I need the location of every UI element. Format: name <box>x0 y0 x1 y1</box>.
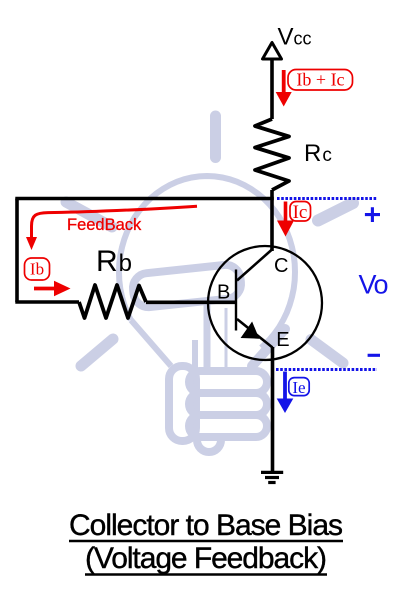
background logo watermark (light bulb with fist) <box>66 116 353 452</box>
resistor Rc <box>255 119 289 190</box>
current label Ib box <box>25 258 50 280</box>
feedback wire left vertical <box>15 199 19 303</box>
current arrow Ie (blue) <box>283 372 287 400</box>
svg-text:Ie: Ie <box>292 378 305 397</box>
current label Ib+Ic box <box>288 70 353 91</box>
svg-text:FeedBack: FeedBack <box>67 216 142 234</box>
resistor Rb <box>79 285 146 318</box>
feedback annotation arrow (red) <box>32 206 198 238</box>
svg-text:C: C <box>274 255 288 277</box>
rays <box>66 116 353 366</box>
feedback wire bottom to Rb <box>15 300 79 304</box>
current arrow Ic (red) <box>284 202 288 222</box>
svg-text:Vcc: Vcc <box>278 24 312 51</box>
svg-text:Vo: Vo <box>359 269 389 299</box>
svg-text:Ib: Ib <box>30 260 44 279</box>
transistor Q1 body circle <box>208 246 322 360</box>
current label Ic box <box>290 202 311 222</box>
svg-text:(Voltage Feedback): (Voltage Feedback) <box>85 542 327 575</box>
emitter wire to ground <box>271 347 275 472</box>
wire Vcc to Rc <box>270 59 274 119</box>
transistor Q1 emitter lead <box>237 319 273 348</box>
feedback wire top: collector node to left side <box>15 197 274 201</box>
svg-text:Ic: Ic <box>293 202 308 223</box>
wire Rc to collector node <box>270 190 274 251</box>
fist <box>132 263 285 452</box>
svg-text:Collector to Base Bias: Collector to Base Bias <box>69 509 343 542</box>
ground symbol <box>261 471 283 474</box>
svg-text:Rb: Rb <box>96 245 132 278</box>
transistor Q1 base bar <box>235 270 237 331</box>
svg-text:Rc: Rc <box>304 140 332 167</box>
svg-text:E: E <box>276 329 289 351</box>
plus sign <box>365 207 380 222</box>
current label Ie box <box>289 378 309 396</box>
svg-text:B: B <box>217 281 230 303</box>
power supply Vcc symbol <box>263 43 282 60</box>
output node dotted line top (+) <box>277 197 377 200</box>
transistor Q1 collector lead <box>237 250 272 281</box>
current arrow Ib+Ic (red) <box>282 70 286 93</box>
svg-text:Ib + Ic: Ib + Ic <box>296 69 344 89</box>
current arrow Ib (red, right) <box>34 287 56 291</box>
transistor Q1 emitter arrow <box>242 323 259 339</box>
bulb glass <box>119 176 295 348</box>
wire Rb to base <box>146 300 236 304</box>
minus sign <box>368 354 380 357</box>
output node dotted line bottom (-) <box>276 368 377 371</box>
